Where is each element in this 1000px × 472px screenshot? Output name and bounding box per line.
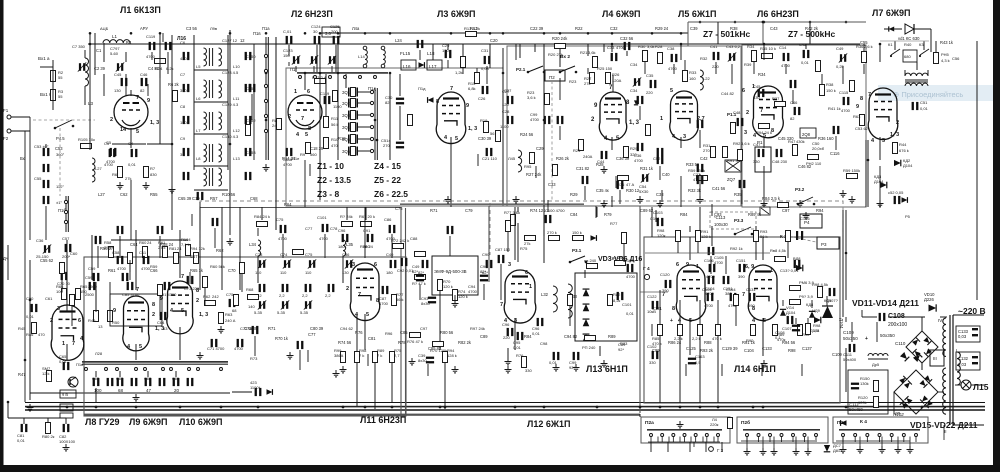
box C132 [956, 352, 980, 370]
svg-text:3: 3 [514, 318, 517, 324]
resistor R24b [579, 140, 584, 151]
svg-text:L17: L17 [429, 64, 437, 69]
wire trim link [125, 52, 127, 62]
wire l3 drop [450, 160, 452, 207]
capacitor C52 [657, 148, 664, 156]
junction bus [659, 406, 662, 409]
wire r21 drop [587, 44, 589, 56]
svg-text:5-35: 5-35 [277, 310, 286, 315]
svg-text:R24 56: R24 56 [520, 132, 534, 137]
resistor R84 [257, 222, 268, 227]
svg-text:R76: R76 [516, 353, 524, 358]
svg-text:8: 8 [152, 302, 155, 308]
wire bank gnd [95, 388, 97, 402]
box dashed branch [489, 203, 491, 255]
svg-text:20: 20 [174, 388, 180, 393]
svg-text:R34: R34 [747, 44, 755, 49]
junction [7, 401, 10, 404]
contact P1a [64, 200, 67, 203]
resistor R66b [62, 289, 67, 300]
capacitor C5b [110, 148, 117, 156]
svg-text:КД8: КД8 [806, 302, 814, 307]
ground C97 [553, 364, 560, 371]
capacitor filler [637, 96, 644, 104]
capacitor C86 [389, 225, 396, 233]
svg-text:R7: R7 [150, 166, 156, 171]
wire stub [845, 317, 847, 322]
svg-text:C45: C45 [114, 72, 122, 77]
capacitor C81 [259, 284, 266, 292]
svg-text:0,01: 0,01 [801, 60, 810, 65]
wire r89 down [374, 363, 376, 409]
diode VD10 [929, 304, 937, 311]
wire stub [785, 64, 787, 74]
svg-text:C97: C97 [782, 208, 790, 213]
wire texture drop [147, 84, 149, 96]
wire stub [515, 44, 517, 60]
svg-text:150: 150 [80, 289, 87, 294]
svg-text:R31 1k: R31 1k [640, 166, 654, 171]
resistor filler [293, 250, 304, 255]
svg-text:C132: C132 [958, 356, 969, 361]
wire R11 drop [325, 74, 327, 116]
capacitor bank C86b [187, 378, 194, 386]
wire stub [717, 300, 719, 324]
ground underbank c [840, 446, 847, 453]
resistor R120 [874, 397, 879, 408]
svg-text:Z6 - 22.5: Z6 - 22.5 [374, 189, 408, 199]
junction [389, 72, 392, 75]
svg-text:3,6 k: 3,6 k [527, 95, 536, 100]
ground filler [761, 200, 768, 207]
wire L6 top [763, 44, 765, 60]
wire grid [130, 90, 132, 96]
wire stub a [519, 44, 521, 58]
svg-text:C46 82: C46 82 [798, 164, 812, 169]
switch bank bar &#1055;2&#1074; [839, 429, 920, 431]
svg-text:FL15: FL15 [400, 51, 411, 56]
svg-text:C3 56: C3 56 [186, 26, 198, 31]
svg-text:7: 7 [301, 116, 304, 122]
wire row link [194, 189, 228, 191]
resistor R46 [32, 323, 37, 334]
svg-text:L3: L3 [88, 101, 94, 106]
resistor R6 [118, 167, 123, 178]
svg-text:R20 24k: R20 24k [552, 36, 568, 41]
svg-text:C77: C77 [308, 332, 316, 337]
wire texture drop [711, 204, 713, 216]
svg-text:R24: R24 [573, 148, 581, 153]
svg-text:R84: R84 [680, 212, 688, 217]
svg-text:R20 27k: R20 27k [548, 52, 563, 57]
wire contact drop [815, 437, 817, 443]
contact &#1055;2&#1074;-3 [878, 434, 881, 437]
svg-text:Р3.2: Р3.2 [795, 187, 805, 192]
wire filler drop [299, 350, 301, 370]
svg-text:R41 1k: R41 1k [828, 106, 841, 111]
svg-text:C7 350: C7 350 [72, 44, 86, 49]
wire bank drop [119, 371, 121, 377]
svg-text:R13: R13 [470, 26, 478, 31]
contact &#1055;2&#1073;-4 [792, 434, 795, 437]
svg-text:L34: L34 [249, 242, 257, 247]
wire stub [679, 300, 681, 324]
capacitor bank C84b [131, 378, 138, 386]
capacitor bank C84 [117, 378, 124, 386]
arrow c52 [902, 197, 908, 203]
capacitor C101b [322, 224, 329, 232]
capacitor C137 [794, 260, 801, 268]
resistor R78 [587, 264, 598, 269]
resistor R11 [324, 117, 329, 128]
svg-text:27k: 27k [125, 176, 131, 181]
wire vd10 out [940, 316, 947, 318]
svg-text:6: 6 [525, 270, 528, 276]
wire left trunk b [24, 131, 26, 402]
wire stub [462, 68, 464, 74]
svg-text:3,6k: 3,6k [647, 44, 655, 49]
resistor SM7 [47, 371, 52, 382]
wire F1 lead [11, 116, 30, 118]
svg-text:С108: С108 [888, 313, 905, 320]
svg-text:C35: C35 [646, 73, 654, 78]
resistor R12 [315, 79, 326, 84]
wire stub [684, 60, 686, 70]
diode VD8 [796, 265, 803, 272]
svg-text:5: 5 [689, 318, 692, 324]
svg-text:C29: C29 [536, 146, 544, 151]
svg-text:C6: C6 [180, 40, 186, 45]
resistor R82 [608, 295, 613, 306]
svg-text:2Q8: 2Q8 [802, 132, 811, 137]
wire stub [725, 256, 727, 274]
svg-text:Р3.1: Р3.1 [572, 248, 582, 253]
capacitor C73b [187, 276, 194, 284]
svg-text:82*: 82* [412, 269, 418, 274]
wire filler drop [214, 228, 216, 248]
capacitor C56 [43, 196, 50, 204]
wire stub c [603, 44, 605, 52]
svg-text:27k: 27k [584, 81, 590, 86]
wire r86 down [679, 336, 681, 403]
svg-text:L10: L10 [233, 64, 240, 69]
svg-text:5: 5 [139, 344, 142, 350]
svg-text:C60: C60 [70, 251, 78, 256]
wire stub [826, 296, 828, 306]
wire r75 down [391, 363, 393, 403]
inductor L22 [700, 70, 703, 90]
wire stub [731, 64, 733, 84]
resistor R99 [341, 352, 346, 363]
svg-text:12 k: 12 k [42, 371, 50, 376]
terminal L14 bottom [363, 64, 367, 68]
contact P1g [329, 76, 332, 79]
wire stub [486, 66, 488, 84]
svg-text:C40: C40 [662, 172, 670, 177]
svg-text:Р3: Р3 [821, 242, 827, 247]
svg-text:C71 4700: C71 4700 [207, 346, 225, 351]
wire l4 drop [611, 196, 613, 207]
resistor R19 [484, 122, 489, 133]
resistor R23 [545, 94, 550, 105]
switch bar P1g [297, 72, 388, 74]
svg-text:ЗQ4: ЗQ4 [342, 125, 351, 130]
resistor R29 [624, 147, 629, 158]
svg-text:3: 3 [744, 130, 747, 136]
wire stub [447, 60, 449, 68]
box RM8 [60, 390, 76, 398]
svg-text:0,01: 0,01 [626, 311, 635, 316]
contact P1g [359, 76, 362, 79]
wire K3 drop [923, 41, 925, 50]
ground filler [761, 360, 768, 367]
capacitor filler [790, 80, 797, 88]
svg-text:R60 56k: R60 56k [210, 264, 225, 269]
svg-text:C38: C38 [667, 46, 675, 51]
ground filler [27, 404, 34, 411]
svg-text:R62: R62 [216, 248, 224, 253]
svg-text:C48 230: C48 230 [772, 159, 788, 164]
wire c33 drop [611, 44, 613, 52]
svg-text:2,7: 2,7 [394, 353, 400, 358]
junction bus [514, 406, 517, 409]
svg-text:1, 3: 1, 3 [468, 126, 477, 132]
capacitor C100 [545, 215, 552, 223]
wire bank3 bottom [836, 440, 910, 442]
wire filler drop [735, 306, 737, 326]
junction [813, 203, 816, 206]
capacitor bank row 5 right [245, 172, 252, 180]
contact P1g [314, 76, 317, 79]
svg-text:C5: C5 [106, 140, 112, 145]
resistor R30 [643, 51, 648, 62]
svg-text:C41: C41 [710, 44, 718, 49]
ground filler [263, 164, 270, 171]
resistor R150 [874, 381, 879, 392]
svg-text:R18: R18 [338, 136, 346, 141]
capacitor C54 [43, 164, 50, 172]
svg-text:vd1 КС 630: vd1 КС 630 [898, 36, 920, 41]
relay contact P1.2 [798, 197, 813, 204]
capacitor C26 [482, 86, 489, 94]
svg-text:C137: C137 [802, 346, 813, 351]
ground filler [697, 196, 704, 203]
resistor R33 [683, 71, 688, 82]
svg-text:П2а: П2а [645, 420, 654, 426]
wire bank2 drop b [807, 437, 809, 449]
svg-text:1, 3: 1, 3 [890, 132, 899, 138]
svg-text:C110: C110 [895, 341, 906, 346]
svg-text:180: 180 [338, 244, 345, 249]
svg-text:L18: L18 [427, 51, 435, 56]
diode KD9 [822, 306, 833, 318]
capacitor C42 [803, 50, 810, 58]
wire stub [95, 282, 97, 310]
svg-text:C73 39: C73 39 [244, 326, 258, 331]
svg-text:Вх1 а: Вх1 а [38, 56, 50, 61]
junction rail [680, 32, 683, 35]
svg-text:1, 3: 1, 3 [150, 120, 159, 126]
svg-text:Z2 - 13.5: Z2 - 13.5 [317, 175, 351, 185]
box aux1 [60, 404, 73, 411]
wire P1e bar [275, 37, 277, 230]
svg-text:R97 24k: R97 24k [470, 326, 485, 331]
svg-text:C18 39: C18 39 [310, 146, 324, 151]
capacitor C46 [141, 78, 148, 86]
capacitor C33 [611, 53, 618, 61]
trimmer C85 [304, 300, 312, 309]
svg-text:C27: C27 [504, 88, 512, 93]
wire stub [650, 442, 652, 452]
contact P1g [344, 76, 347, 79]
svg-text:470 k: 470 k [712, 336, 722, 341]
svg-text:L6: L6 [196, 96, 201, 101]
resistor R94b [194, 253, 199, 264]
IF transformer row 3 [204, 112, 222, 130]
svg-text:C85 82: C85 82 [428, 346, 442, 351]
svg-text:C84: C84 [570, 212, 578, 217]
capacitor C46b [794, 107, 801, 115]
svg-text:1100*: 1100* [250, 385, 261, 390]
svg-text:L12: L12 [233, 128, 240, 133]
capacitor C102b [657, 218, 664, 226]
contact bank 2 [116, 368, 119, 371]
wire r98 drop [689, 226, 691, 232]
svg-text:C125: C125 [686, 346, 697, 351]
svg-text:C4 82: C4 82 [148, 66, 160, 71]
junction bus [342, 406, 345, 409]
svg-text:R34: R34 [758, 72, 766, 77]
svg-text:R72 242 k: R72 242 k [391, 238, 409, 243]
resistor R89b [773, 325, 778, 336]
svg-text:C70: C70 [228, 268, 236, 273]
wire texture drop [427, 364, 429, 376]
contact P1v [264, 114, 267, 117]
wire r85 down [659, 336, 661, 403]
svg-text:6: 6 [742, 88, 745, 94]
svg-text:100: 100 [94, 388, 102, 393]
junction [319, 72, 322, 75]
svg-text:C83: C83 [92, 377, 99, 381]
resistor R31 [711, 147, 716, 158]
svg-text:R82 2k: R82 2k [458, 340, 472, 345]
svg-text:R33 56: R33 56 [686, 162, 700, 167]
wire r49 top [95, 290, 97, 312]
svg-text:0,03: 0,03 [958, 362, 967, 367]
svg-text:160: 160 [689, 76, 696, 81]
terminal F2 [7, 129, 11, 133]
svg-text:5-35: 5-35 [300, 310, 309, 315]
wire stub [861, 310, 863, 317]
capacitor C96c [537, 318, 544, 326]
svg-text:100х30: 100х30 [714, 222, 728, 227]
wire contact drop [804, 437, 806, 443]
svg-text:C,01: C,01 [283, 29, 292, 34]
switch bar P1a [65, 196, 67, 232]
wire stub [419, 284, 421, 300]
svg-text:C103: C103 [653, 210, 663, 215]
contact P1g [374, 76, 377, 79]
wire bank2 drop b [762, 437, 764, 449]
svg-text:C121: C121 [652, 306, 663, 311]
svg-text:C31 82: C31 82 [576, 166, 590, 171]
quartz ZQ1 [349, 88, 357, 97]
svg-text:180: 180 [386, 270, 393, 275]
wire RN5 drop [935, 41, 937, 52]
svg-text:8х30: 8х30 [418, 358, 427, 363]
ground underbank [805, 448, 812, 455]
svg-text:Л7 6Ж9П: Л7 6Ж9П [872, 8, 910, 18]
svg-text:C106: C106 [800, 216, 810, 221]
svg-text:C43: C43 [770, 26, 778, 31]
svg-text:50х400: 50х400 [843, 357, 857, 362]
wire contact drop [661, 437, 663, 443]
capacitor C52b [894, 196, 901, 204]
wire right rail [976, 41, 978, 300]
box P3 relay [817, 237, 839, 249]
contact &#1055;2&#1073;-6 [815, 434, 818, 437]
svg-text:0,03: 0,03 [481, 66, 490, 71]
svg-text:Др5: Др5 [872, 362, 880, 367]
wire c30 drop [399, 74, 401, 96]
resistor R24 [155, 59, 166, 64]
wire l2 drop [304, 160, 306, 207]
tube L13 6N1P [676, 265, 705, 321]
wire L35 drop [342, 256, 344, 283]
svg-text:C36 39: C36 39 [616, 156, 630, 161]
capacitor C99c [544, 116, 551, 124]
wire trunk x700 [699, 207, 701, 237]
wire trunk x240 [239, 207, 241, 290]
inductor L27 [92, 158, 95, 182]
svg-text:L11: L11 [233, 96, 240, 101]
svg-text:П1в: П1в [253, 31, 261, 36]
resistor R63b [860, 115, 865, 126]
resistor R74 [453, 290, 458, 301]
svg-text:C76: C76 [395, 206, 403, 211]
wire T2 a [904, 70, 906, 76]
capacitor bank row 1 right [245, 52, 252, 60]
wire r77 drop [543, 230, 545, 236]
svg-text:R92: R92 [733, 141, 741, 146]
wire stub [40, 66, 53, 68]
svg-text:6, 9: 6, 9 [745, 264, 754, 270]
terminal L24 top [381, 46, 385, 50]
junction [265, 119, 268, 122]
capacitor bank row 2 right [245, 84, 252, 92]
resistor R70b [433, 342, 444, 347]
wire c100 drop [596, 207, 598, 217]
wire ks b [914, 28, 931, 30]
wire bank1 drop [679, 437, 681, 443]
svg-text:128 k: 128 k [701, 234, 711, 239]
ground filler [452, 366, 459, 373]
svg-text:C55: C55 [860, 40, 868, 45]
svg-text:R63: R63 [225, 312, 233, 317]
capacitor bank C86 [173, 378, 180, 386]
capacitor C163 [688, 358, 696, 365]
contact P1a [64, 210, 67, 213]
svg-text:7: 7 [868, 92, 871, 98]
svg-text:R76 47 k: R76 47 k [407, 339, 423, 344]
wire L3 bottom [84, 86, 86, 105]
svg-text:1: 1 [660, 116, 663, 122]
svg-text:C80 39: C80 39 [310, 326, 324, 331]
wire r94 down [444, 363, 446, 409]
junction bus [762, 406, 765, 409]
ground EMF [452, 300, 459, 307]
tube L2 6N23P [288, 95, 322, 129]
